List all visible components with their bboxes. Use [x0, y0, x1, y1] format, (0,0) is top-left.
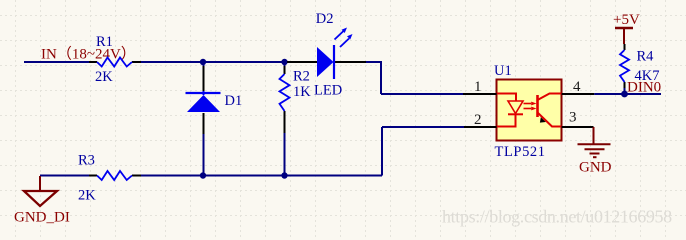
U1 pin 2 [464, 112, 497, 128]
svg-text:R3: R3 [78, 153, 95, 169]
wire bottom rail [40, 127, 464, 176]
svg-text:LED: LED [314, 83, 342, 99]
node junction D1 top [200, 59, 206, 65]
node junction R2 top [281, 59, 287, 65]
svg-text:+5V: +5V [613, 12, 640, 28]
svg-text:2K: 2K [95, 69, 113, 85]
label 2K (R3) [78, 188, 96, 204]
label TLP521 [495, 144, 546, 160]
resistor R1 [89, 58, 141, 67]
label U1 [494, 63, 512, 79]
net label DIN0 [627, 80, 661, 96]
svg-text:1K: 1K [293, 84, 311, 100]
label LED [314, 83, 342, 99]
U1 internal phototransistor [538, 94, 562, 127]
diode D1 [186, 66, 221, 134]
svg-text:3: 3 [569, 110, 577, 126]
svg-text:D2: D2 [316, 11, 334, 27]
label 1K (R2) [293, 84, 311, 100]
svg-text:https://blog.csdn.net/u0121669: https://blog.csdn.net/u012166958 [442, 207, 672, 227]
net label IN [41, 46, 136, 63]
node junction DIN0 [621, 91, 628, 98]
wire top rail middle [141, 61, 287, 63]
label D1 [225, 93, 243, 109]
wire D1 branch [203, 62, 205, 176]
U1 pin 4 [562, 79, 595, 95]
label R2 [293, 69, 310, 85]
power +5V symbol [615, 28, 633, 44]
label 2K (R1) [95, 69, 113, 85]
svg-text:U1: U1 [494, 63, 512, 79]
svg-text:GND_DI: GND_DI [14, 210, 70, 226]
U1 pin 3 [562, 110, 594, 128]
svg-text:R2: R2 [293, 69, 310, 85]
U1 internal coupling arrows [524, 102, 537, 111]
op-amp U1 optocoupler body [497, 80, 562, 141]
svg-text:1: 1 [474, 79, 482, 95]
svg-text:GND: GND [579, 160, 612, 176]
wire LED to U1 pin1 [366, 62, 463, 94]
resistor R4 [620, 44, 629, 88]
svg-text:2K: 2K [78, 188, 96, 204]
U1 pin 1 [463, 79, 497, 95]
label 4K7 [635, 68, 660, 84]
U1 internal LED [497, 94, 523, 127]
wire DIN0 net [594, 88, 661, 94]
svg-text:R4: R4 [637, 49, 655, 65]
svg-text:TLP521: TLP521 [495, 144, 546, 160]
svg-text:R1: R1 [96, 34, 113, 50]
net label GND [579, 160, 612, 176]
wire R2 branch [284, 62, 286, 176]
resistor R2 [280, 66, 290, 133]
label R1 [96, 34, 113, 50]
watermark [442, 207, 672, 227]
svg-text:4: 4 [573, 79, 581, 95]
ground GND_DI power symbol [24, 176, 57, 206]
svg-text:D1: D1 [225, 93, 243, 109]
net label GND_DI [14, 210, 70, 226]
label D2 [316, 11, 334, 27]
label R4 [637, 49, 655, 65]
wire top rail left [24, 61, 89, 63]
node junction D1 bottom [200, 172, 206, 178]
LED D2 [287, 28, 366, 80]
svg-text:DIN0: DIN0 [627, 80, 661, 96]
ground GND power symbol [578, 127, 611, 157]
label R3 [78, 153, 95, 169]
net label +5V [613, 12, 640, 28]
resistor R3 [89, 171, 141, 180]
svg-text:2: 2 [474, 112, 482, 128]
node junction R2 bottom [281, 172, 287, 178]
